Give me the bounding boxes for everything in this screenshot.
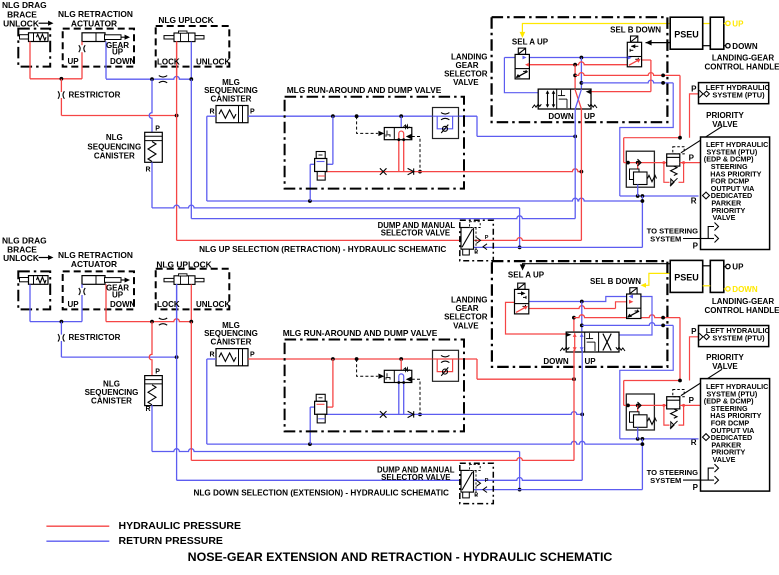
svg-text:CONTROL HANDLE: CONTROL HANDLE [705, 306, 779, 315]
svg-text:SEQUENCING: SEQUENCING [87, 143, 141, 152]
svg-text:UNLOCK: UNLOCK [196, 300, 230, 309]
svg-text:DOWN: DOWN [110, 300, 136, 309]
svg-text:NLG UPLOCK: NLG UPLOCK [156, 260, 211, 270]
svg-text:R: R [209, 109, 214, 116]
svg-text:UP: UP [112, 48, 124, 57]
svg-text:HYDRAULIC PRESSURE: HYDRAULIC PRESSURE [119, 520, 242, 532]
svg-text:R: R [474, 249, 478, 255]
svg-text:P: P [155, 369, 160, 376]
svg-text:SEL A UP: SEL A UP [508, 271, 545, 280]
svg-text:VALVE: VALVE [713, 455, 736, 464]
svg-text:CANISTER: CANISTER [91, 396, 132, 405]
svg-text:DOWN: DOWN [543, 357, 569, 366]
svg-text:PRIORITY: PRIORITY [706, 111, 744, 120]
svg-text:LOCK: LOCK [157, 300, 180, 309]
svg-text:SELECTOR: SELECTOR [444, 313, 488, 322]
svg-text:VALVE: VALVE [453, 78, 479, 87]
svg-text:UP: UP [585, 357, 597, 366]
svg-text:RETURN PRESSURE: RETURN PRESSURE [119, 535, 223, 547]
svg-text:DOWN: DOWN [732, 285, 758, 294]
svg-text:LANDING-GEAR: LANDING-GEAR [712, 54, 774, 63]
svg-text:SYSTEM: SYSTEM [650, 234, 681, 243]
svg-text:CANISTER: CANISTER [211, 94, 252, 103]
svg-text:R: R [146, 406, 151, 413]
svg-text:VALVE: VALVE [712, 120, 738, 129]
svg-text:LOCK: LOCK [157, 57, 180, 66]
svg-text:MLG RUN-AROUND AND DUMP VALVE: MLG RUN-AROUND AND DUMP VALVE [283, 328, 438, 338]
svg-text:UP: UP [584, 112, 596, 121]
svg-text:R: R [474, 492, 478, 498]
svg-text:P: P [689, 396, 695, 405]
svg-text:CANISTER: CANISTER [94, 152, 135, 161]
svg-text:SEL B DOWN: SEL B DOWN [610, 25, 661, 34]
svg-text:VALVE: VALVE [713, 213, 736, 222]
svg-text:SYSTEM (PTU): SYSTEM (PTU) [712, 91, 765, 100]
svg-text:UP: UP [68, 300, 80, 309]
svg-text:UP: UP [732, 263, 744, 272]
svg-text:R: R [146, 167, 151, 174]
svg-text:SYSTEM (PTU): SYSTEM (PTU) [712, 334, 765, 343]
svg-text:UP: UP [732, 20, 744, 29]
svg-text:P: P [485, 235, 489, 241]
svg-text:ACTUATOR: ACTUATOR [71, 259, 117, 269]
svg-text:NLG UP SELECTION (RETRACTION): NLG UP SELECTION (RETRACTION) - HYDRAULI… [199, 245, 446, 254]
svg-text:PSEU: PSEU [674, 273, 699, 283]
svg-text:RESTRICTOR: RESTRICTOR [69, 333, 121, 342]
svg-text:P: P [250, 109, 255, 116]
svg-text:UP: UP [68, 57, 80, 66]
svg-text:P: P [155, 125, 160, 132]
svg-text:PSEU: PSEU [674, 30, 699, 40]
svg-text:PRIORITY: PRIORITY [706, 353, 744, 362]
svg-text:P: P [250, 352, 255, 359]
svg-text:P: P [691, 84, 697, 93]
svg-text:SEL A UP: SEL A UP [512, 38, 549, 47]
svg-text:P: P [689, 153, 695, 162]
svg-text:VALVE: VALVE [712, 362, 738, 371]
svg-text:DOWN: DOWN [548, 112, 574, 121]
svg-text:SELECTOR: SELECTOR [444, 70, 488, 79]
svg-text:CONTROL HANDLE: CONTROL HANDLE [705, 63, 779, 72]
svg-text:P: P [693, 241, 699, 250]
svg-text:SYSTEM: SYSTEM [650, 476, 681, 485]
svg-text:P: P [485, 478, 489, 484]
svg-text:P: P [691, 327, 697, 336]
svg-text:VALVE: VALVE [453, 321, 479, 330]
svg-text:NLG DRAG: NLG DRAG [2, 0, 47, 10]
svg-text:UNLOCK: UNLOCK [3, 253, 39, 263]
svg-text:NLG: NLG [106, 133, 123, 142]
svg-text:NOSE-GEAR EXTENSION AND RETRAC: NOSE-GEAR EXTENSION AND RETRACTION - HYD… [188, 550, 613, 564]
svg-text:MLG RUN-AROUND AND DUMP VALVE: MLG RUN-AROUND AND DUMP VALVE [287, 85, 442, 95]
svg-text:SELECTOR VALVE: SELECTOR VALVE [381, 473, 450, 482]
svg-text:RESTRICTOR: RESTRICTOR [69, 90, 121, 99]
svg-text:P: P [693, 483, 699, 492]
svg-text:R: R [691, 196, 697, 205]
svg-text:DOWN: DOWN [732, 42, 758, 51]
svg-text:UNLOCK: UNLOCK [3, 19, 39, 29]
svg-text:LANDING-GEAR: LANDING-GEAR [712, 297, 774, 306]
svg-text:CANISTER: CANISTER [211, 337, 252, 346]
svg-text:UP: UP [112, 290, 124, 299]
svg-text:NLG UPLOCK: NLG UPLOCK [158, 15, 213, 25]
svg-text:R: R [209, 352, 214, 359]
svg-text:UNLOCK: UNLOCK [196, 57, 230, 66]
svg-text:ACTUATOR: ACTUATOR [71, 18, 117, 28]
svg-text:SEL B DOWN: SEL B DOWN [590, 277, 641, 286]
svg-text:NLG DOWN SELECTION (EXTENSION): NLG DOWN SELECTION (EXTENSION) - HYDRAUL… [193, 489, 449, 498]
svg-text:SELECTOR VALVE: SELECTOR VALVE [381, 228, 450, 237]
svg-text:DOWN: DOWN [110, 57, 136, 66]
